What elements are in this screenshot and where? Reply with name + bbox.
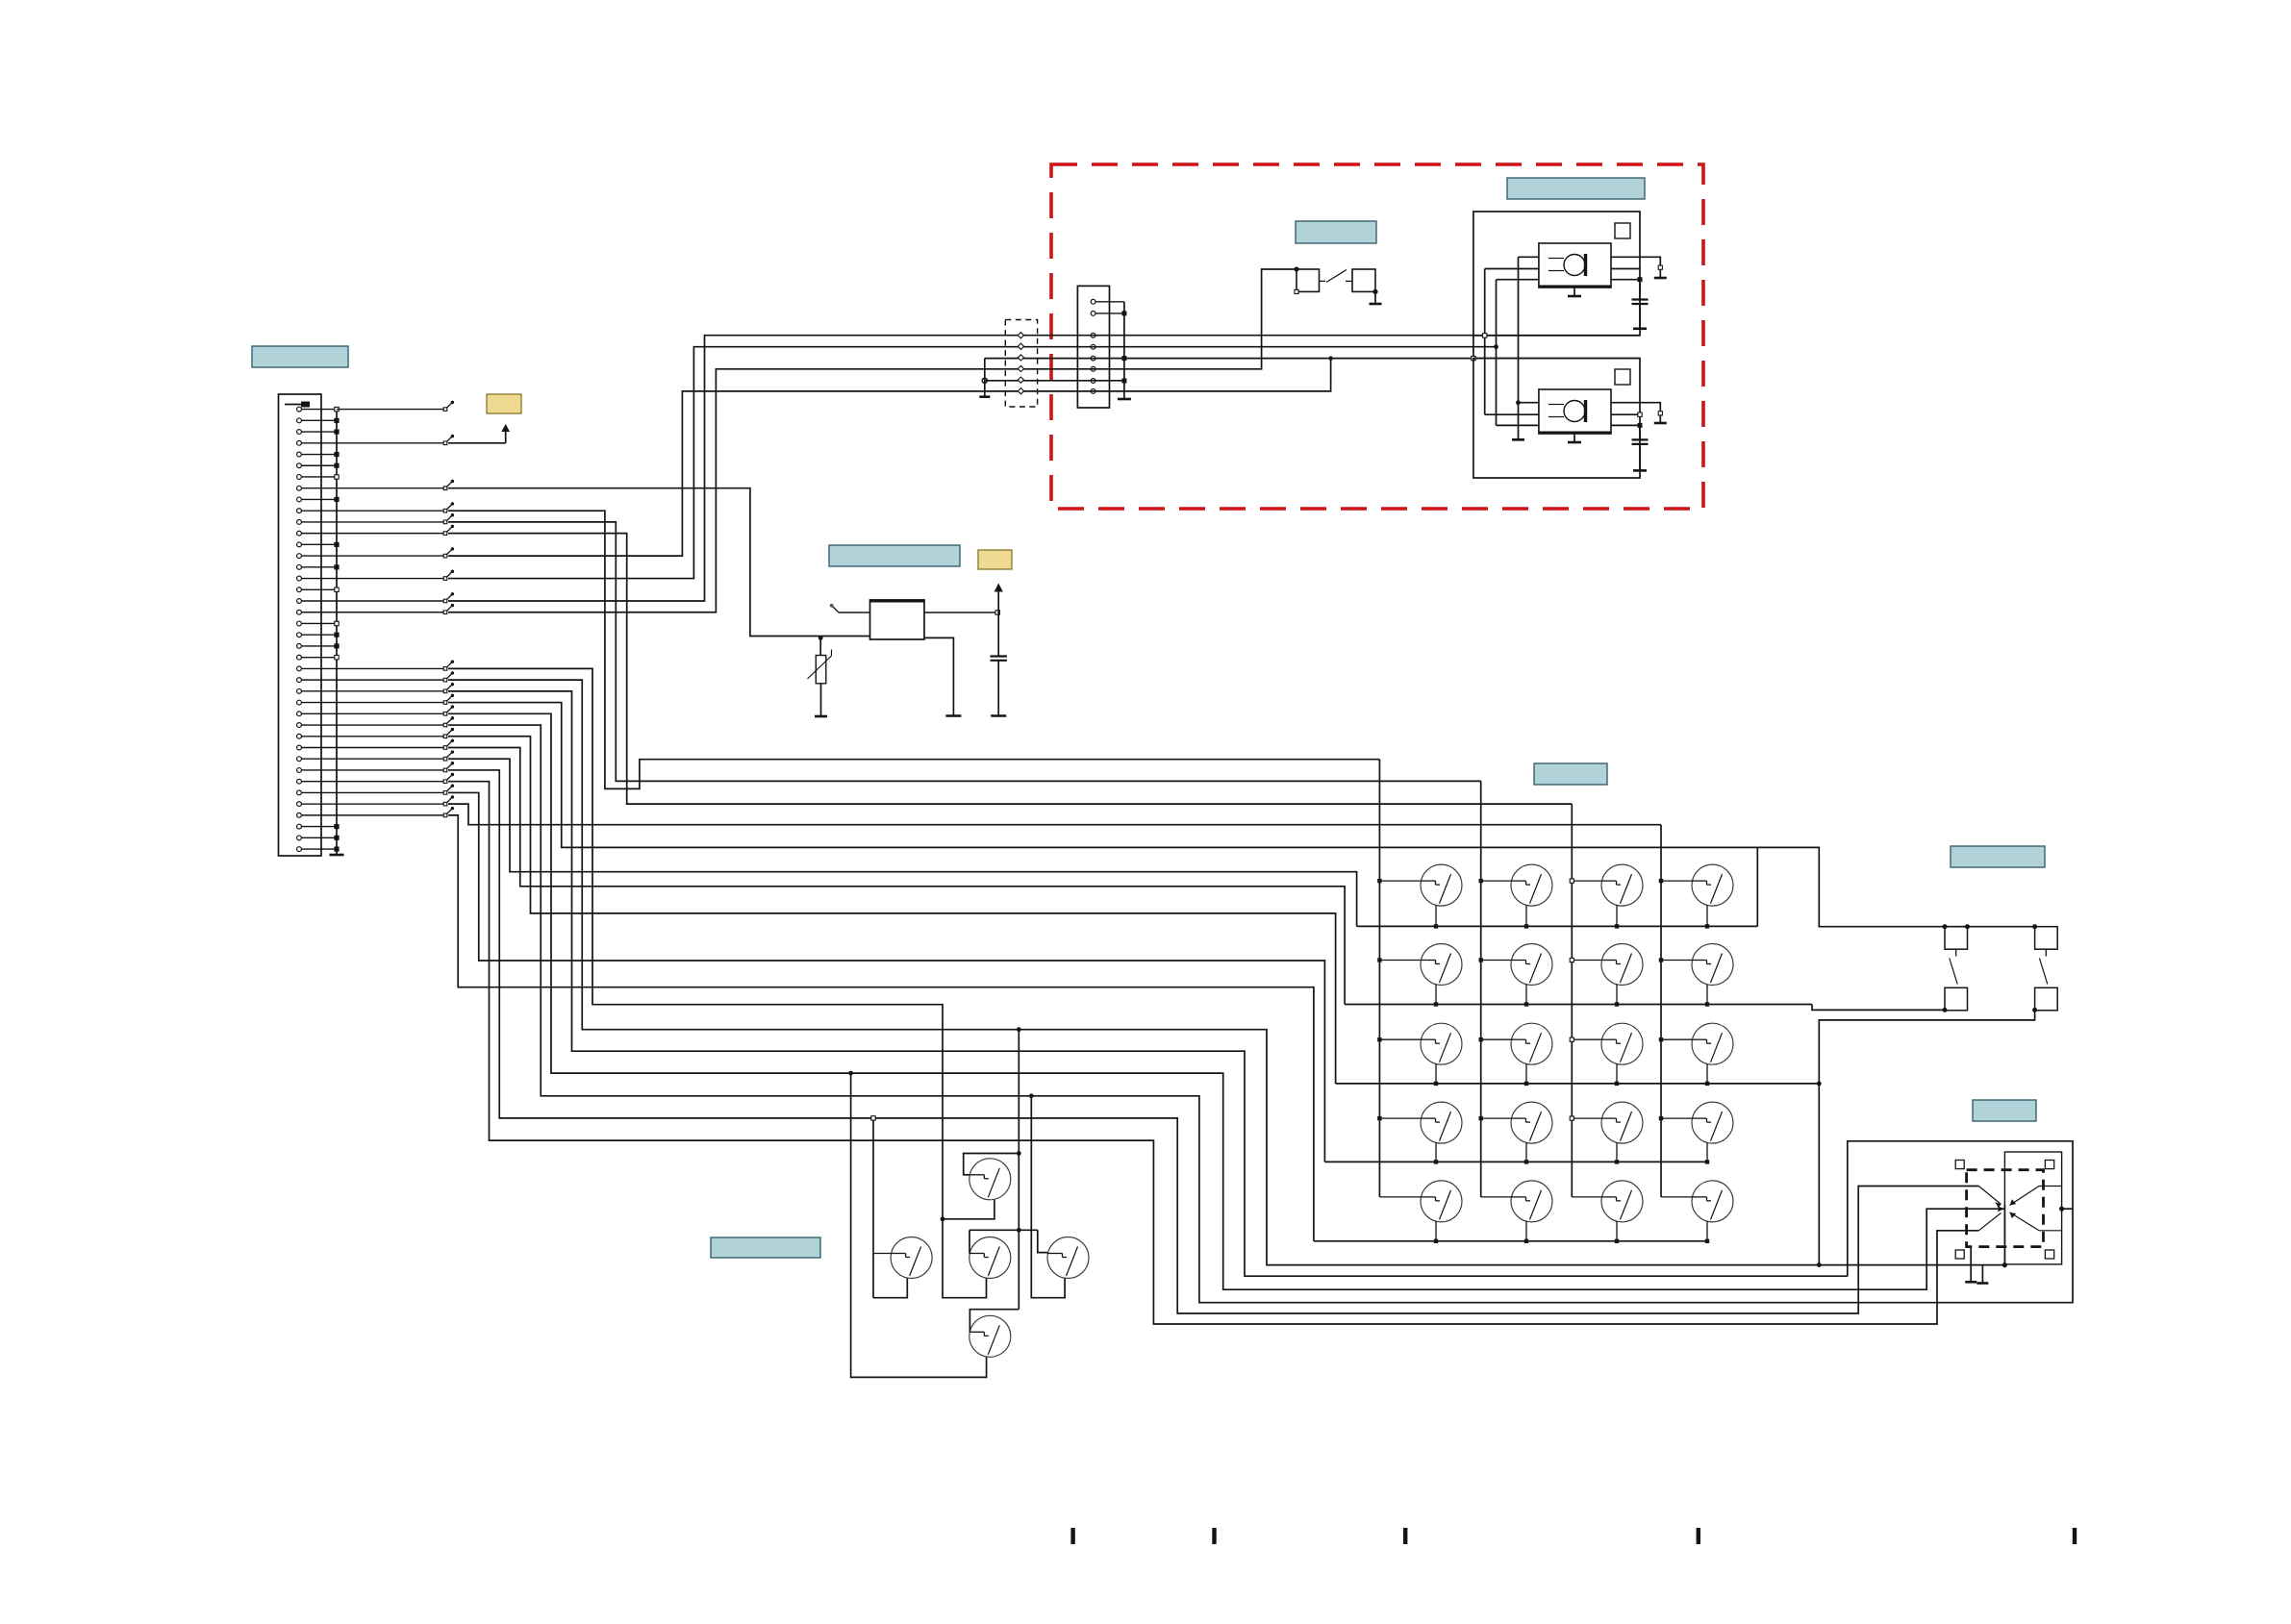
- matrix switch r4c1: [1379, 1117, 1421, 1119]
- matrix switch r1c3: [1572, 880, 1601, 882]
- motor A right wires: [1611, 257, 1660, 278]
- wire pin24 to SW cluster center net: [448, 668, 987, 1297]
- wire pin31 to matrix row bus2: [448, 748, 1345, 1005]
- wire pin4 to up-arrow: [448, 442, 506, 444]
- bus junctions: [335, 407, 339, 411]
- matrix switch r5c1: [1379, 1196, 1421, 1198]
- outer box lamp unit A: [1473, 212, 1640, 336]
- matrix switch r4c4: [1661, 1117, 1692, 1119]
- matrix switch r2c2: [1481, 960, 1511, 962]
- label SW cluster (blue): [711, 1237, 820, 1258]
- branch pin28 to SW cluster bottom net: [848, 1071, 853, 1076]
- capacitor lamp A: [1639, 280, 1641, 300]
- motor B symbol: [1564, 401, 1585, 422]
- jog corner pin squares: [1955, 1161, 1964, 1169]
- wire pin37 to matrix row bus5: [448, 815, 1314, 1241]
- matrix switch r1c1: [1379, 880, 1421, 882]
- matrix switch r5c3: [1572, 1196, 1601, 1198]
- matrix switch r3c4: [1661, 1038, 1692, 1040]
- matrix switch r1c4: [1661, 880, 1692, 882]
- varistor ground: [820, 684, 822, 716]
- red dashed boundary box: [1051, 164, 1703, 509]
- feed C vertical: [1496, 280, 1498, 426]
- cluster left switch: [891, 1237, 932, 1279]
- cluster bottom feed: [969, 1310, 1019, 1333]
- wire pin16 to connector row2: [448, 347, 1497, 579]
- row3 to lamp unit: [985, 358, 1640, 360]
- jog outer ring: [1848, 1141, 2073, 1303]
- wire pin12 to matrix column3: [448, 534, 1572, 804]
- cluster top exit: [943, 1200, 994, 1219]
- matrix switch r5c4: [1661, 1196, 1692, 1198]
- matrix switch r2c1: [1379, 960, 1421, 962]
- jog grounds: [1970, 1247, 1972, 1283]
- matrix switch r2c3: [1572, 960, 1601, 962]
- pin square lamp A: [1615, 223, 1630, 238]
- jog right junction: [2059, 1207, 2064, 1212]
- matrix switch r1c2: [1481, 880, 1511, 882]
- 8p connector pins: [1091, 299, 1095, 304]
- wire pin36 to matrix column4: [448, 804, 1661, 825]
- connector CN body (8p): [1077, 286, 1109, 408]
- matrix bus2 extension to pushbuttons: [1812, 1005, 1945, 1011]
- switch SW body left: [1297, 269, 1320, 291]
- connector CN101 body: [279, 394, 322, 856]
- label VCC (yellow): [978, 550, 1012, 569]
- wire pin28 to jog switch wire B: [448, 713, 2004, 1289]
- wire pin35 to matrix row bus4: [448, 792, 1324, 1162]
- wire pin33 to SW cluster left and jog wire A: [448, 770, 1978, 1313]
- label motor unit (blue): [1507, 178, 1645, 199]
- label CN101 (blue): [252, 346, 348, 367]
- wire pin10 to matrix column1 (jog): [448, 511, 1379, 788]
- inner motor B body: [1539, 389, 1611, 434]
- connector CN101 pin1 marker: [285, 404, 301, 406]
- row switches at connector: [337, 409, 445, 411]
- cluster top switch: [969, 1159, 1011, 1200]
- matrix switch r3c1: [1379, 1038, 1421, 1040]
- regulator body: [870, 600, 925, 639]
- pushbutton SW2: [2035, 927, 2058, 950]
- varistor body: [819, 637, 821, 655]
- motor A ground: [1573, 287, 1575, 296]
- capacitor C at VCC: [991, 655, 1007, 657]
- jog X arms: [1978, 1187, 2001, 1205]
- switch SW blade: [1320, 280, 1326, 282]
- cluster left feed and exit: [872, 1118, 874, 1298]
- wire pin34 to jog wire C: [448, 782, 1978, 1324]
- matrix switch r3c3: [1572, 1038, 1601, 1040]
- label IC regulator (blue): [829, 545, 960, 566]
- matrix switch r4c2: [1481, 1117, 1511, 1119]
- cluster right switch: [1047, 1237, 1089, 1279]
- wire pin25 to jog bottom-left row: [448, 680, 2004, 1264]
- motor A symbol: [1564, 255, 1585, 276]
- capacitor lamp B: [1639, 425, 1641, 439]
- wire pin30 to matrix row bus3: [448, 737, 1336, 1084]
- switch SW body right: [1346, 280, 1352, 282]
- jog inner body: [2004, 1152, 2061, 1264]
- connector CN101 pins: [297, 407, 302, 412]
- label jog switch (blue): [1973, 1100, 2036, 1121]
- wire pin26 to jog ring left tail: [448, 691, 1848, 1276]
- wire pin29 to jog ring bottom: [448, 725, 1937, 1303]
- wire pin27 to pushbutton pair feed: [448, 703, 2035, 927]
- motor A left feed wires: [1518, 257, 1520, 439]
- cluster top feed: [964, 1154, 1020, 1175]
- wire pin11 to matrix column2: [448, 522, 1481, 782]
- pushbutton SW1: [1945, 927, 1968, 950]
- motor B right wires: [1611, 403, 1660, 423]
- fold tick 5: [2073, 1528, 2077, 1544]
- varistor junction: [818, 636, 823, 640]
- dashed cable connector: [1005, 320, 1037, 408]
- jog dashed frame: [1967, 1170, 2044, 1247]
- 8p ground bus: [1123, 302, 1125, 399]
- fold tick 4: [1697, 1528, 1700, 1544]
- matrix switch r2c4: [1661, 960, 1692, 962]
- cluster feed column from pin25 row: [1018, 1030, 1020, 1310]
- inner motor A body: [1539, 243, 1611, 287]
- regulator input switch blade: [839, 612, 870, 613]
- fold tick 1: [1070, 1528, 1074, 1544]
- regulator output to VCC: [924, 612, 997, 613]
- label key matrix (blue): [1534, 763, 1607, 785]
- ground bus of CN101: [336, 410, 338, 855]
- jog center column: [2003, 1205, 2005, 1265]
- wire pin8 to regulator input: [448, 488, 870, 637]
- motor B ground: [1573, 434, 1575, 442]
- cluster center and right feeds: [969, 1229, 1038, 1231]
- jog wire B arrow: [1997, 1206, 2004, 1212]
- label SW pair (blue): [1951, 846, 2045, 867]
- ground stub rows3and5: [984, 359, 986, 397]
- matrix switch r5c2: [1481, 1196, 1511, 1198]
- VCC arrow: [997, 588, 999, 657]
- fold tick 2: [1212, 1528, 1216, 1544]
- outer box lamp unit B: [1473, 359, 1640, 478]
- matrix column buses: [1378, 760, 1380, 1197]
- cluster right exit: [1031, 1096, 1065, 1298]
- fold tick 3: [1403, 1528, 1407, 1544]
- pin square lamp B: [1615, 369, 1630, 385]
- regulator ground leg: [924, 637, 953, 715]
- matrix row buses: [1357, 925, 1758, 927]
- matrix bus1 to pushbutton riser: [1756, 847, 1758, 926]
- cluster center switch: [969, 1237, 1011, 1279]
- row5 to bus: [985, 380, 1124, 382]
- dashed connector pins: [1018, 333, 1023, 338]
- wire pin18 to connector row1: [448, 336, 1640, 601]
- switch SW ground: [1374, 291, 1376, 304]
- label SW power (blue): [1296, 221, 1376, 243]
- matrix switch r4c3: [1572, 1117, 1601, 1119]
- pushbutton SW2 bottom wire: [1819, 1011, 2034, 1265]
- wire pin14 to connector row6: [448, 359, 1331, 556]
- matrix switch r3c2: [1481, 1038, 1511, 1040]
- wire pin19 to connector row4: [448, 269, 1297, 612]
- cluster bottom switch: [969, 1315, 1011, 1357]
- feed B vertical: [1484, 269, 1486, 415]
- label +5V (yellow): [487, 394, 521, 413]
- wire pin32 to matrix row bus1: [448, 759, 1357, 926]
